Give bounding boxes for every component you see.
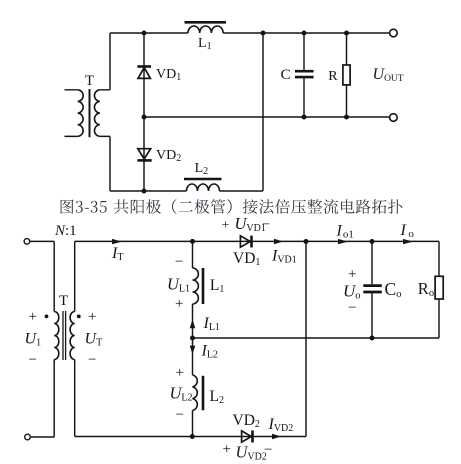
output terminal + (top circuit) — [390, 29, 398, 37]
output terminal - (top circuit) — [390, 114, 398, 122]
arrow I_T — [112, 239, 122, 244]
svg-text:Co: Co — [385, 279, 402, 300]
wire: vertical x=263 from bottom rail up to top rail — [262, 33, 264, 191]
svg-text:UVD2: UVD2 — [236, 443, 267, 463]
arrow I_VD1 — [274, 239, 283, 244]
transformer T (top): secondary leads — [100, 90, 110, 137]
wire: bottom terminal to primary — [30, 436, 54, 438]
arrow I_o1 — [338, 239, 348, 244]
diode VD2 (bottom): cathode bar — [251, 431, 254, 443]
node dot top rail / VD1 branch — [142, 31, 147, 36]
svg-text:T: T — [85, 73, 94, 89]
diode VD1 (top): cathode bar — [137, 65, 151, 68]
wire: primary top lead down — [53, 241, 55, 311]
capacitor Co: plates — [363, 286, 382, 292]
svg-text:VD1: VD1 — [156, 67, 181, 83]
inductor L2 (bottom) winding — [193, 375, 198, 410]
svg-text:+: + — [175, 296, 183, 312]
inductor L1 (bottom) winding — [193, 268, 199, 304]
svg-text:−: − — [88, 352, 96, 368]
arrow I_L2 (down) — [190, 346, 196, 354]
diode VD2 (top): triangle (pointing down) — [138, 149, 151, 159]
svg-text:Io1: Io1 — [336, 222, 354, 240]
wire: top rail (bottom circuit) — [75, 240, 439, 242]
transformer T (top): primary stub leads — [65, 90, 78, 137]
wire: secondary top lead up to top rail — [74, 241, 76, 311]
arrow I_L1 (up) — [190, 320, 196, 329]
wire: diode branch vertical x=144 — [143, 33, 145, 191]
diode VD2 (top): cathode bar — [137, 159, 151, 162]
node dot top rail / R branch — [344, 31, 349, 36]
svg-text:C: C — [281, 67, 291, 83]
svg-text:UT: UT — [85, 331, 103, 349]
transformer T (bottom): secondary winding — [70, 312, 75, 360]
node dot mid rail / common anode node — [142, 115, 147, 120]
capacitor Co: bottom lead — [371, 293, 373, 338]
svg-text:−: − — [175, 254, 183, 270]
svg-text:VD1: VD1 — [233, 250, 260, 268]
wire: top rail from L1 to right end — [223, 32, 389, 34]
node dot top rail / Co branch — [370, 239, 375, 244]
svg-text:IVD1: IVD1 — [271, 247, 297, 265]
svg-text:T: T — [59, 293, 68, 309]
node dot mid rail / C bottom — [302, 115, 307, 120]
svg-text:VD2: VD2 — [156, 148, 181, 164]
wire: L branch lower segment — [192, 410, 194, 436]
input terminal bottom-left — [25, 434, 31, 440]
wire: bottom rail (bottom circuit) — [75, 436, 306, 438]
input terminal top-left — [24, 239, 30, 245]
node dot mid point of L branch — [190, 336, 195, 341]
svg-text:Io: Io — [400, 222, 415, 240]
capacitor C (top): plates — [295, 71, 314, 77]
wire: secondary top lead up to top rail — [109, 33, 111, 90]
inductor L2 (top) core bar — [184, 178, 222, 181]
node dot bottom rail / L branch — [190, 434, 195, 439]
polarity dot primary — [45, 315, 49, 319]
wire: secondary bottom lead down to bottom rail — [74, 360, 76, 437]
node dot bottom rail / VD2 bottom — [142, 189, 147, 194]
wire: L branch between L1 and mid node — [192, 304, 194, 338]
wire: vertical common cathode x=306 (top rail to bottom rail) — [305, 242, 307, 437]
svg-text:IL2: IL2 — [201, 343, 218, 361]
diode VD2 (bottom): triangle pointing right — [242, 431, 252, 442]
wire: mid rail (common anode to output minus) — [144, 116, 389, 118]
svg-text:IVD2: IVD2 — [268, 416, 294, 434]
resistor Ro: body — [435, 276, 443, 299]
inductor L1 (top) winding humps — [188, 26, 223, 33]
capacitor Co: top lead — [371, 242, 373, 285]
svg-text:L1: L1 — [210, 277, 224, 295]
transformer T (bottom): core — [63, 311, 66, 360]
svg-text:L1: L1 — [198, 36, 212, 52]
wire: bottom rail right segment to corner — [220, 190, 264, 192]
svg-text:R: R — [328, 69, 338, 84]
diode VD1 (bottom): cathode bar — [250, 236, 253, 248]
svg-text:+: + — [29, 309, 37, 325]
svg-text:Uo: Uo — [343, 282, 361, 302]
svg-text:−: − — [348, 300, 356, 316]
arrow I_o — [403, 239, 413, 244]
transformer T (bottom): primary winding — [54, 312, 59, 360]
wire: L branch between mid node and L2 — [192, 338, 194, 375]
node dot top rail / cathode junction x=306 — [304, 239, 309, 244]
diode VD1 (bottom): triangle pointing right — [240, 236, 250, 247]
svg-text:+: + — [176, 365, 184, 381]
svg-text:UL1: UL1 — [167, 274, 190, 294]
svg-text:N:1: N:1 — [54, 223, 77, 239]
inductor L2 (bottom) core bar — [202, 376, 205, 411]
wire: mid output wire y=338 — [193, 337, 440, 339]
svg-text:U1: U1 — [25, 331, 42, 349]
node dot mid rail / R bottom — [344, 115, 349, 120]
polarity dot secondary — [77, 315, 81, 319]
node dot mid wire / Co bottom — [370, 336, 375, 341]
wire: secondary bottom lead down to bottom rail — [109, 136, 111, 191]
svg-text:UOUT: UOUT — [373, 66, 404, 84]
svg-text:−: − — [262, 218, 270, 233]
inductor L2 (top) winding humps — [187, 184, 220, 191]
diode VD1 (top): triangle (pointing up) — [138, 68, 150, 79]
svg-text:+: + — [223, 442, 231, 458]
svg-text:UL2: UL2 — [170, 384, 193, 404]
resistor Ro: bottom lead — [438, 299, 440, 338]
capacitor C (top): top lead — [303, 33, 305, 70]
resistor Ro: top lead — [438, 242, 440, 277]
svg-text:L2: L2 — [210, 388, 224, 406]
node dot top rail / L2 vertical — [261, 31, 266, 36]
capacitor C (top): bottom lead — [303, 78, 305, 117]
svg-text:UVD1: UVD1 — [235, 214, 266, 234]
svg-text:−: − — [176, 407, 184, 423]
svg-text:+: + — [222, 218, 230, 233]
svg-text:IT: IT — [111, 245, 123, 263]
svg-text:VD2: VD2 — [233, 412, 260, 430]
wire: top rail left segment — [110, 32, 188, 34]
svg-text:+: + — [88, 309, 96, 325]
svg-text:−: − — [29, 352, 37, 368]
inductor L1 (bottom) core bar — [202, 268, 205, 304]
svg-text:−: − — [264, 442, 272, 458]
resistor R (top): top lead — [346, 33, 348, 65]
wire: primary bottom lead up — [53, 360, 55, 438]
svg-text:IL1: IL1 — [203, 315, 220, 333]
resistor R (top): body — [343, 65, 350, 85]
transformer T (top): core — [89, 89, 91, 137]
node dot top rail / L branch — [190, 239, 195, 244]
transformer T (top): primary winding — [78, 90, 83, 137]
wire: bottom rail left segment — [110, 190, 187, 192]
arrow I_VD2 — [272, 434, 281, 439]
svg-text:Ro: Ro — [418, 279, 434, 299]
inductor L1 (top) core bar — [185, 21, 227, 24]
transformer T (top): secondary winding — [94, 90, 99, 137]
wire: top terminal to primary — [30, 240, 55, 242]
node dot top rail / C branch — [302, 31, 307, 36]
resistor R (top): bottom lead — [346, 85, 348, 117]
wire: L branch upper segment — [192, 241, 194, 268]
svg-text:+: + — [348, 267, 356, 283]
svg-text:L2: L2 — [195, 161, 209, 177]
caption 图3-35 — [61, 199, 403, 214]
